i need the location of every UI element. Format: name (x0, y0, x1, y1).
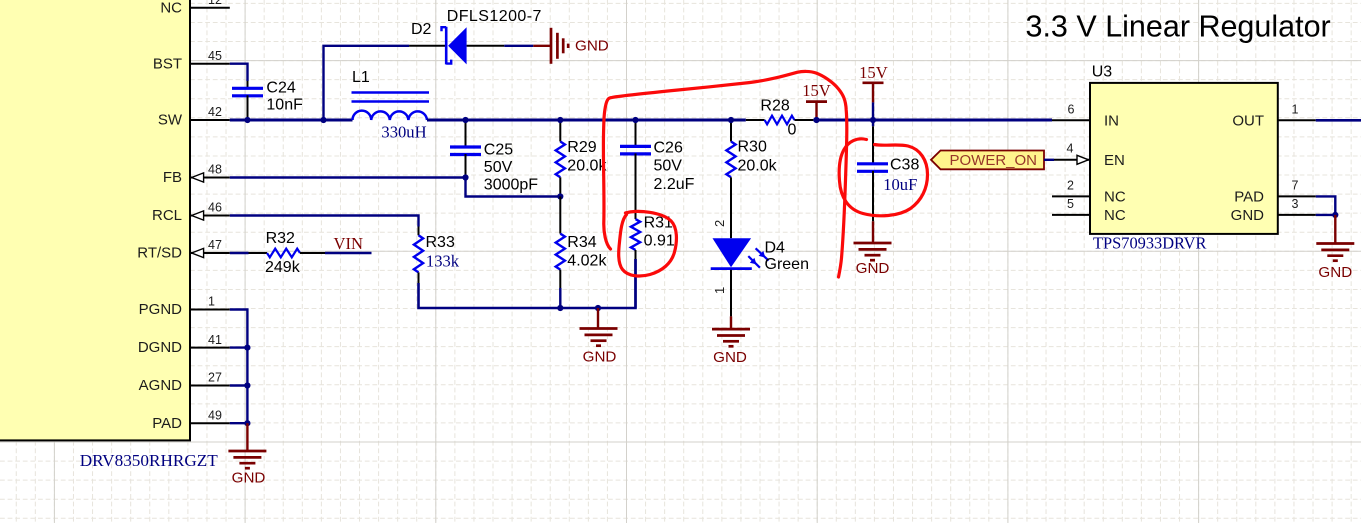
svg-text:R34: R34 (567, 234, 596, 251)
wire SW bus left segment (230, 119, 353, 122)
capacitor C26 (620, 120, 695, 219)
svg-text:RT/SD: RT/SD (137, 245, 182, 262)
resistor R32 (249, 230, 326, 276)
wire RT/SD to R32 (230, 252, 249, 254)
svg-text:GND: GND (1231, 207, 1265, 224)
svg-text:NC: NC (1104, 189, 1126, 206)
svg-text:GND: GND (583, 348, 617, 365)
pin RCL (46) of DRV8350 (152, 201, 230, 224)
wire 15V to C38 (872, 102, 874, 126)
pin OUT (1) of U3 (1232, 102, 1315, 129)
svg-text:GND: GND (1318, 264, 1352, 281)
wire D2 anode to GND (504, 45, 533, 47)
wire POWER_ON to EN (1044, 159, 1054, 161)
wire R31 to bottom bus (634, 259, 636, 308)
svg-text:10nF: 10nF (266, 97, 303, 114)
junction PAD (244, 420, 250, 426)
wire AGND link (230, 384, 248, 386)
wire PAD to GND net (1316, 196, 1336, 215)
power port 15V (left) (802, 81, 831, 120)
junction SW/D2 (320, 117, 326, 123)
svg-text:27: 27 (208, 371, 222, 385)
svg-text:5: 5 (1067, 197, 1074, 211)
annotation red circle around R31 (619, 211, 677, 276)
svg-text:2: 2 (1067, 178, 1074, 192)
svg-text:15V: 15V (802, 81, 831, 100)
value 10uF of C38 (883, 175, 917, 194)
wire bottom ground bus (419, 259, 636, 308)
capacitor C38 (857, 126, 919, 221)
svg-text:R33: R33 (426, 234, 455, 251)
pin NC (5) of U3 (1052, 197, 1126, 224)
wire PAD link (230, 422, 248, 424)
junction R34/bus (557, 305, 563, 311)
pin BST (45) of DRV8350 (153, 49, 230, 72)
svg-text:C24: C24 (266, 79, 295, 96)
part number DRV8350RHRGZT (80, 451, 219, 470)
svg-text:DRV8350RHRGZT: DRV8350RHRGZT (80, 451, 219, 470)
svg-text:0: 0 (788, 122, 797, 139)
junction SW/R30 (728, 117, 734, 123)
power port 15V (right) (859, 63, 888, 102)
junction SW/R29 (557, 117, 563, 123)
svg-text:PGND: PGND (139, 301, 183, 318)
svg-text:4.02k: 4.02k (567, 253, 607, 270)
junction 15V/bus (813, 117, 819, 123)
wire PGND to ground bus (230, 310, 248, 424)
wire D4 cathode to GND (730, 270, 732, 317)
svg-text:3: 3 (1292, 197, 1299, 211)
pin SW (42) of DRV8350 (158, 105, 230, 128)
svg-text:IN: IN (1104, 112, 1119, 129)
svg-text:DFLS1200-7: DFLS1200-7 (447, 8, 542, 25)
svg-text:VIN: VIN (334, 234, 364, 253)
svg-text:42: 42 (208, 105, 222, 119)
junction SW/C26 (632, 117, 638, 123)
svg-text:133k: 133k (426, 252, 460, 271)
wire DGND link (230, 346, 248, 348)
junction GND tap/bus (595, 305, 601, 311)
svg-text:249k: 249k (265, 259, 301, 276)
junction SW/C24 (244, 117, 250, 123)
svg-text:D4: D4 (765, 240, 786, 257)
svg-text:7: 7 (1292, 178, 1299, 192)
svg-text:15V: 15V (859, 63, 888, 82)
svg-text:GND: GND (713, 349, 747, 366)
wire to VIN (325, 252, 372, 254)
junction FB/C25 (462, 174, 468, 180)
svg-text:BST: BST (153, 55, 182, 72)
pin GND (3) of U3 (1231, 197, 1316, 224)
resistor R31 (631, 215, 675, 260)
wire R34 to bottom bus (559, 288, 561, 308)
ground GND below DRV8350 (228, 423, 266, 486)
svg-text:DGND: DGND (138, 339, 182, 356)
inductor L1 (352, 69, 430, 120)
svg-text:1: 1 (1292, 102, 1299, 116)
capacitor C25 (450, 120, 538, 194)
ground GND below C38 (854, 221, 892, 277)
ground GND at bottom bus (580, 308, 618, 365)
svg-text:GND: GND (856, 260, 890, 277)
svg-text:3000pF: 3000pF (484, 177, 538, 194)
svg-text:R29: R29 (567, 139, 596, 156)
svg-text:46: 46 (208, 201, 222, 215)
title 3.3 V Linear Regulator (1026, 10, 1331, 44)
ground GND below D4 (712, 316, 750, 365)
svg-text:L1: L1 (352, 69, 370, 86)
wire C25 to R29 bottom (466, 178, 561, 197)
svg-text:NC: NC (160, 0, 182, 16)
svg-text:R28: R28 (760, 98, 789, 115)
resistor R34 (556, 197, 608, 289)
pin FB (48) of DRV8350 (163, 163, 230, 186)
pin NC (12) of DRV8350 (160, 0, 229, 16)
svg-text:45: 45 (208, 49, 222, 63)
part number DFLS1200-7 (447, 8, 542, 25)
wire OUT net (1316, 119, 1361, 122)
svg-text:10uF: 10uF (883, 175, 917, 194)
pin 1 of D4 (712, 287, 727, 294)
resistor R29 (556, 120, 608, 197)
svg-text:20.0k: 20.0k (567, 157, 607, 174)
svg-text:OUT: OUT (1232, 112, 1264, 129)
svg-text:2.2uF: 2.2uF (654, 176, 695, 193)
annotation red circle around C38 (839, 139, 927, 216)
svg-text:20.0k: 20.0k (738, 157, 778, 174)
junction SW/C25 (462, 117, 468, 123)
svg-text:FB: FB (163, 169, 182, 186)
svg-text:49: 49 (208, 408, 222, 422)
wire 15V bus right of R28 (813, 119, 1052, 122)
junction PAD/GND (1332, 212, 1338, 218)
svg-text:0.91: 0.91 (644, 233, 675, 250)
wire FB net (230, 176, 466, 178)
wire SW to D2 riser (324, 46, 410, 120)
svg-text:D2: D2 (411, 21, 432, 38)
IC DRV8350RHRGZT body (0, 0, 190, 440)
svg-text:6: 6 (1068, 102, 1075, 116)
part number TPS70933DRVR (1093, 234, 1207, 253)
wire BST to C24 (230, 64, 248, 81)
svg-text:U3: U3 (1092, 64, 1113, 81)
svg-text:1: 1 (208, 295, 215, 309)
svg-text:POWER_ON: POWER_ON (950, 152, 1038, 169)
pin PAD (7) of U3 (1234, 178, 1316, 205)
value 133k of R33 (426, 252, 460, 271)
pin PAD (49) of DRV8350 (152, 408, 230, 431)
svg-text:AGND: AGND (139, 377, 183, 394)
svg-text:R32: R32 (266, 230, 295, 247)
junction R29/R34/FB-link (557, 193, 563, 199)
ground GND at U3 (1316, 215, 1354, 281)
junction DGND (244, 345, 250, 351)
svg-text:TPS70933DRVR: TPS70933DRVR (1093, 234, 1207, 253)
pin EN (4) of U3 (1054, 142, 1125, 169)
value 330uH of L1 (381, 123, 426, 142)
wire GND pin net (1316, 214, 1336, 216)
resistor R28 (746, 98, 814, 139)
pin NC (2) of U3 (1052, 178, 1126, 205)
svg-text:4: 4 (1067, 142, 1074, 156)
svg-text:3.3 V Linear Regulator: 3.3 V Linear Regulator (1026, 10, 1331, 44)
svg-text:2: 2 (712, 220, 727, 227)
diode D2 (Schottky DFLS1200-7) (409, 21, 504, 64)
svg-text:RCL: RCL (152, 207, 182, 224)
junction AGND (244, 382, 250, 388)
pin IN (6) of U3 (1052, 102, 1119, 129)
svg-text:12: 12 (208, 0, 222, 7)
svg-text:41: 41 (208, 333, 222, 347)
svg-text:50V: 50V (654, 158, 683, 175)
LED D4 Green (711, 238, 809, 273)
svg-text:GND: GND (575, 38, 609, 55)
svg-text:1: 1 (712, 287, 727, 294)
svg-text:50V: 50V (484, 159, 513, 176)
svg-text:48: 48 (208, 163, 222, 177)
svg-text:C38: C38 (890, 157, 919, 174)
wire RCL net (230, 216, 419, 227)
svg-text:R30: R30 (738, 139, 767, 156)
svg-text:PAD: PAD (152, 415, 182, 432)
resistor R33 (414, 227, 455, 284)
pin AGND (27) of DRV8350 (139, 371, 230, 394)
svg-text:Green: Green (765, 256, 809, 273)
svg-text:330uH: 330uH (381, 123, 426, 142)
svg-text:NC: NC (1104, 207, 1126, 224)
junction bus/C38 (870, 117, 876, 123)
power port VIN (334, 234, 364, 253)
capacitor C24 (232, 79, 303, 120)
IC U3 body (1090, 64, 1278, 234)
svg-text:C26: C26 (654, 140, 683, 157)
svg-text:C25: C25 (484, 142, 513, 159)
pin DGND (41) of DRV8350 (138, 333, 230, 356)
wire SW bus middle segment (427, 119, 746, 122)
resistor R30 (726, 120, 777, 238)
pin 2 of D4 (712, 220, 727, 227)
ground GND at D2 (rotated) (533, 28, 608, 64)
net label POWER_ON (931, 151, 1044, 170)
svg-text:PAD: PAD (1234, 189, 1264, 206)
svg-text:EN: EN (1104, 152, 1125, 169)
svg-text:SW: SW (158, 112, 183, 129)
pin PGND (1) of DRV8350 (139, 295, 230, 318)
pin RT/SD (47) of DRV8350 (137, 238, 230, 261)
svg-text:GND: GND (232, 470, 266, 487)
svg-text:47: 47 (208, 238, 222, 252)
annotation red loop around output net (603, 71, 846, 277)
